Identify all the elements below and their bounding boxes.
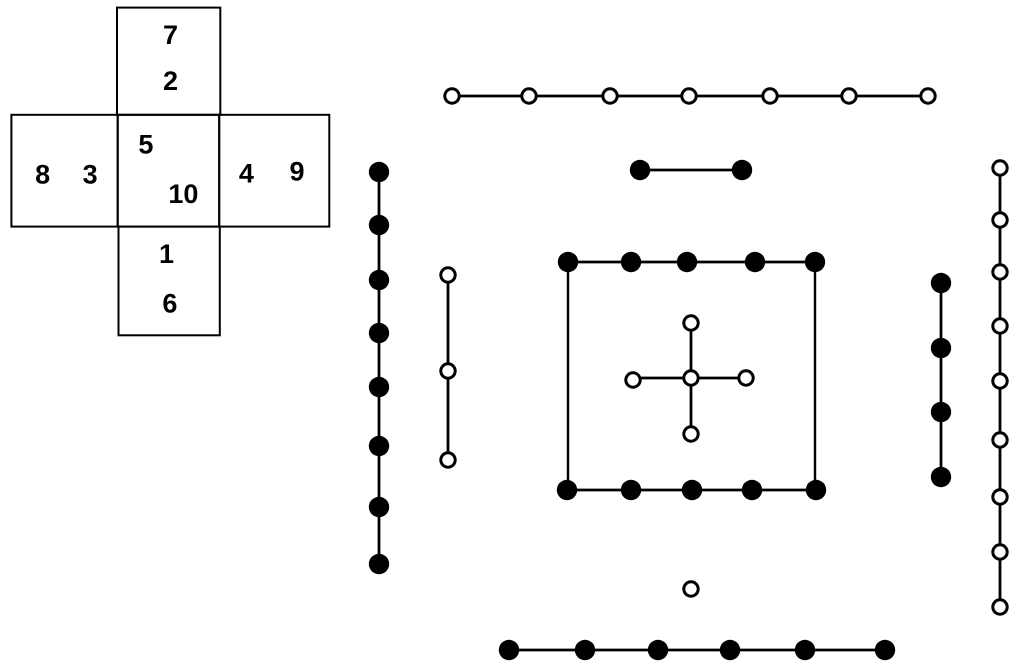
wire: bottom row connector bbox=[509, 649, 885, 652]
svg-text:5: 5 bbox=[138, 129, 153, 159]
right cell of number cross (4,9) bbox=[219, 115, 329, 227]
svg-text:6: 6 bbox=[162, 288, 177, 318]
right outer column: nine white dots (heaven 9) bbox=[993, 161, 1007, 614]
wire: square top edge bbox=[568, 261, 815, 264]
svg-text:2: 2 bbox=[163, 66, 178, 96]
top row: seven white dots (heaven 7) bbox=[445, 89, 935, 103]
single white dot (heaven 1) bbox=[684, 582, 698, 596]
svg-text:8: 8 bbox=[35, 160, 50, 190]
left inner column: three white dots (heaven 3) bbox=[441, 268, 455, 467]
wire: top row connector bbox=[452, 95, 928, 98]
wire: left outer column connector bbox=[378, 172, 381, 564]
svg-text:7: 7 bbox=[163, 20, 178, 50]
wire: square left edge bbox=[567, 262, 569, 490]
left cell of number cross (8,3) bbox=[11, 115, 117, 227]
square bottom row: five black dots (earth 10, lower half) bbox=[557, 480, 826, 500]
svg-text:10: 10 bbox=[168, 179, 198, 209]
svg-text:1: 1 bbox=[159, 239, 174, 269]
wire: center cross horizontal bbox=[633, 377, 746, 380]
center cross: five white dots (heaven 5) bbox=[626, 316, 753, 441]
bottom row: six black dots (earth 6) bbox=[499, 640, 895, 660]
left column: eight black dots (earth 8) bbox=[369, 162, 389, 574]
center cell of number cross (5,10) bbox=[118, 115, 220, 227]
bottom cell of number cross (1,6) bbox=[119, 227, 220, 336]
right inner column: four black dots (earth 4) bbox=[931, 273, 951, 487]
wire: earth-2 connector bbox=[640, 169, 742, 172]
pair of black dots (earth 2) bbox=[630, 160, 752, 180]
square top row: five black dots (earth 10, upper half) bbox=[558, 252, 825, 272]
svg-text:4: 4 bbox=[239, 159, 254, 189]
wire: square bottom edge bbox=[568, 489, 815, 492]
wire: square right edge bbox=[814, 262, 816, 490]
wire: right outer column connector bbox=[999, 168, 1002, 607]
svg-text:9: 9 bbox=[289, 157, 304, 187]
wire: right inner column connector bbox=[940, 283, 943, 477]
wire: left inner column connector bbox=[447, 275, 450, 460]
top cell of number cross (7,2) bbox=[117, 8, 220, 115]
svg-text:3: 3 bbox=[83, 160, 98, 190]
wire: center cross vertical bbox=[690, 323, 693, 434]
